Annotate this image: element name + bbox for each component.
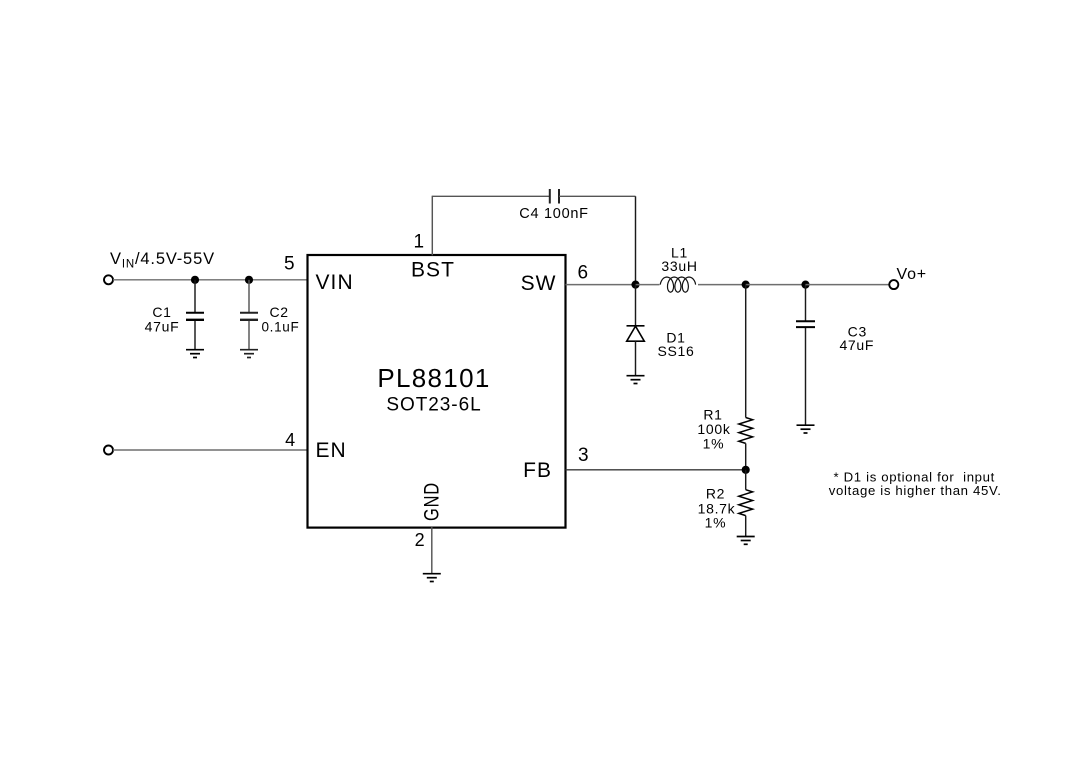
capacitor C4 <box>550 189 559 204</box>
svg-text:voltage is higher than 45V.: voltage is higher than 45V. <box>829 483 1002 498</box>
wire FB <box>566 469 746 471</box>
svg-text:0.1uF: 0.1uF <box>262 319 300 334</box>
svg-text:Vo+: Vo+ <box>897 266 927 283</box>
op-amp U1 PL88101 box <box>308 255 566 528</box>
node junction C1 <box>191 276 199 284</box>
svg-text:1: 1 <box>413 231 425 252</box>
wire GND stub <box>431 527 433 573</box>
node junction FB <box>742 466 750 474</box>
resistor R1 <box>739 418 753 444</box>
wire VIN input to pin 5 <box>113 279 308 281</box>
svg-text:6: 6 <box>578 263 590 284</box>
terminal Vo+ <box>889 280 898 289</box>
node junction C3 <box>801 281 809 289</box>
wire C3 node to Vo+ <box>806 284 890 286</box>
wire FB node to R2 <box>745 470 747 490</box>
svg-text:1%: 1% <box>703 435 725 451</box>
diode D1 <box>627 326 645 375</box>
wire R1 top <box>745 285 747 418</box>
svg-text:BST: BST <box>411 259 455 282</box>
label R1 100k 1% <box>697 407 730 452</box>
svg-text:47uF: 47uF <box>839 337 874 353</box>
wire C2 top <box>248 280 250 312</box>
pin 4 label <box>285 430 296 450</box>
pin name EN <box>316 439 347 462</box>
wire L1 to R1 node <box>698 284 746 286</box>
label C2 0.1uF <box>262 304 300 334</box>
terminal EN input <box>104 446 113 455</box>
wire R2 bottom <box>745 516 747 536</box>
svg-text:C4 100nF: C4 100nF <box>519 206 588 222</box>
svg-text:R2: R2 <box>706 486 725 502</box>
ground C1 <box>186 350 204 358</box>
svg-text:EN: EN <box>316 439 347 462</box>
wire SW <box>566 284 636 286</box>
ground R2 <box>737 537 755 545</box>
pin 1 label <box>413 231 425 252</box>
terminal VIN input <box>104 275 113 284</box>
label L1 33uH <box>661 245 697 275</box>
capacitor C2 <box>240 313 258 349</box>
svg-text:C2: C2 <box>270 304 289 320</box>
svg-text:2: 2 <box>415 530 426 550</box>
svg-text:GND: GND <box>421 482 444 521</box>
wire C4 down to SW node <box>635 196 637 284</box>
pin name FB <box>523 459 552 482</box>
svg-text:PL88101: PL88101 <box>377 363 490 393</box>
label C4 100nF <box>519 206 588 222</box>
ground C2 <box>240 350 258 358</box>
pin 5 label <box>284 254 296 275</box>
wire BST stub <box>431 196 433 256</box>
svg-text:SOT23-6L: SOT23-6L <box>386 395 481 416</box>
resistor R2 <box>739 490 753 516</box>
pin name BST <box>411 259 455 282</box>
wire R1 bottom to FB node <box>745 443 747 469</box>
capacitor C1 <box>186 313 204 349</box>
capacitor C3 <box>796 321 815 424</box>
svg-text:5: 5 <box>284 254 296 275</box>
label C3 47uF <box>839 324 874 354</box>
pin 6 label <box>578 263 590 284</box>
inductor L1 <box>660 277 695 292</box>
svg-text:SW: SW <box>521 272 557 295</box>
node junction R1 top <box>742 281 750 289</box>
wire C1 top <box>194 280 196 312</box>
pin name GND (rotated) <box>421 482 444 521</box>
wire EN <box>113 449 308 451</box>
wire C4 right <box>559 195 636 197</box>
note D1 optional <box>829 469 1002 498</box>
pin name SW <box>521 272 557 295</box>
wire R1 node to C3 node <box>746 284 806 286</box>
node VIN input label <box>110 250 215 271</box>
svg-text:3: 3 <box>578 445 590 466</box>
svg-text:FB: FB <box>523 459 552 482</box>
node Vo+ label <box>897 266 927 283</box>
wire C3 top <box>805 285 807 321</box>
svg-text:VIN: VIN <box>316 271 354 294</box>
node SW junction <box>631 281 639 289</box>
label R2 18.7k 1% <box>698 486 736 531</box>
ground D1 <box>627 376 645 384</box>
svg-text:1%: 1% <box>705 514 727 530</box>
label C1 47uF <box>145 304 180 334</box>
pin 3 label <box>578 445 590 466</box>
wire D1 top <box>635 285 637 326</box>
label D1 SS16 <box>657 330 694 359</box>
wire C4 left <box>432 195 549 197</box>
ground GND pin <box>423 574 441 582</box>
wire SW node to L1 <box>636 284 660 286</box>
node junction C2 <box>245 276 253 284</box>
svg-text:47uF: 47uF <box>145 318 180 334</box>
svg-text:SS16: SS16 <box>657 343 694 359</box>
ground C3 <box>797 425 815 433</box>
pin 2 label <box>415 530 426 550</box>
pin name VIN <box>316 271 354 294</box>
svg-text:33uH: 33uH <box>661 258 697 274</box>
svg-text:4: 4 <box>285 430 296 450</box>
